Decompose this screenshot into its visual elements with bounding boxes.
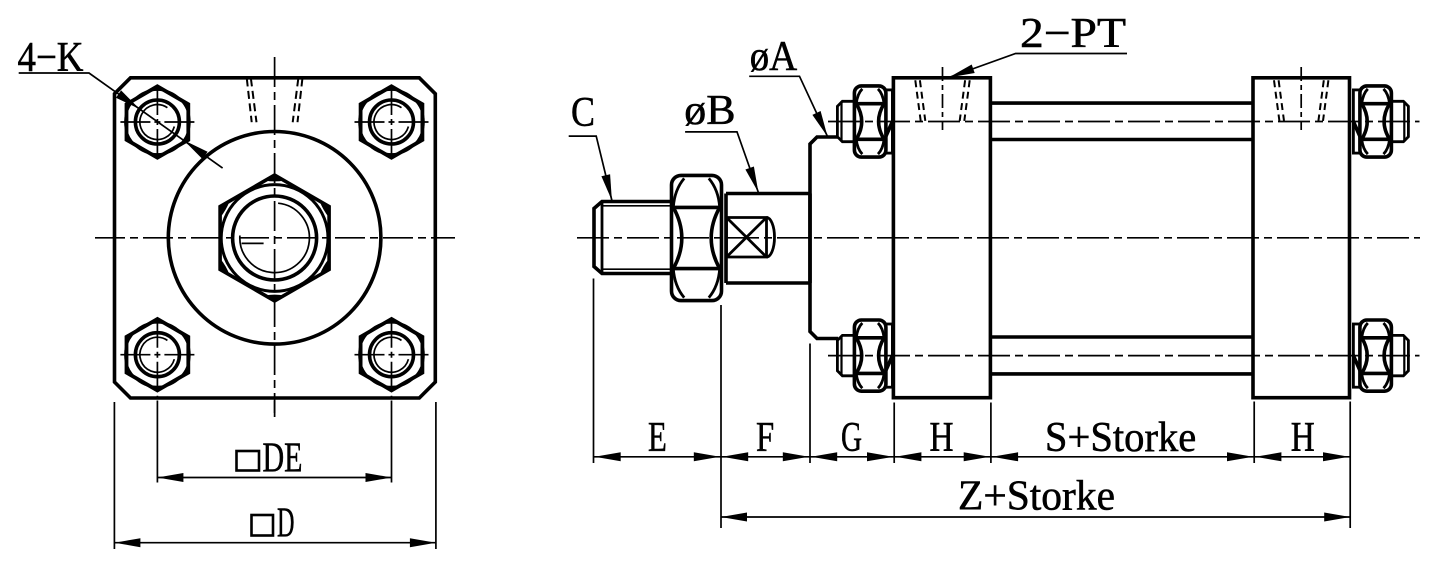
tie-rod bolt top-right: hex	[361, 86, 423, 157]
bolt bottom-left chamfer circle	[125, 323, 189, 387]
dimension line DE	[157, 477, 391, 479]
nut chamfer circle	[221, 185, 328, 292]
dimension line row1	[594, 456, 1350, 458]
piston-rod hex nut (front)	[220, 175, 329, 301]
tie-rod bolt bottom-right: hex	[361, 319, 423, 390]
centerline stub below plate	[274, 401, 276, 414]
rod hex nut (side)	[672, 175, 722, 300]
arrow C	[601, 174, 612, 200]
port hidden lines (front) left pair	[247, 79, 257, 123]
gland section oA	[810, 137, 838, 339]
extension lines DE	[157, 401, 391, 483]
svg-text:2−PT: 2−PT	[1020, 10, 1126, 57]
arrow 2-PT	[949, 65, 975, 78]
extension lines row1	[593, 279, 595, 464]
arrow D right	[410, 538, 436, 547]
tie rod centerline top	[828, 121, 1420, 123]
tie-rod nut rear top	[1353, 86, 1408, 157]
wrench flat tangent arc	[767, 218, 775, 258]
arrow DE left	[157, 473, 183, 482]
bolt bottom-right chamfer wedges	[361, 319, 423, 390]
svg-text:H: H	[930, 414, 954, 461]
svg-text:Z+Storke: Z+Storke	[958, 473, 1115, 520]
bolt bottom-right thread arc	[374, 337, 408, 372]
tie-rod nut rear bottom	[1353, 320, 1408, 391]
arrow oB	[745, 167, 758, 193]
leader C	[569, 136, 612, 200]
port 2-PT on rear cap	[1274, 80, 1328, 121]
bolt top-left centermark	[120, 121, 194, 123]
bolt top-right chamfer wedges	[361, 86, 423, 157]
bolt bottom-left thread arc	[140, 337, 174, 372]
arrow 4-K upper	[116, 90, 140, 109]
tie-rod nut head top	[837, 86, 892, 157]
svg-text:DE: DE	[263, 435, 303, 482]
svg-text:øB: øB	[684, 87, 735, 134]
bolt bottom-right centermark	[355, 354, 429, 356]
svg-text:H: H	[1291, 414, 1315, 461]
main axis centerline	[577, 237, 1420, 239]
arrow 4-K lower	[184, 140, 208, 159]
rod thread circle (3/4)	[240, 203, 310, 272]
bolt bottom-right chamfer circle	[359, 323, 423, 387]
port 2-PT on head cap	[915, 80, 969, 121]
bolt top-left thread arc	[140, 105, 174, 140]
wrench flat square	[727, 218, 767, 258]
arrow DE right	[366, 473, 392, 482]
tie rod centerline bottom	[828, 355, 1420, 357]
bolt top-right shank circle	[370, 100, 414, 144]
rear cap	[1253, 78, 1350, 398]
nut chamfer wedges	[220, 175, 329, 301]
bolt top-left chamfer wedges	[126, 86, 188, 157]
port centerline on head cap	[942, 67, 944, 130]
tie rod bottom	[990, 337, 1253, 374]
plate vertical centerline	[274, 57, 276, 417]
bolt top-right centermark	[355, 121, 429, 123]
arrow D left	[114, 538, 140, 547]
wrench flat diagonals	[727, 218, 767, 258]
leader oA	[749, 76, 827, 136]
bolt top-right chamfer circle	[359, 90, 423, 154]
tie-rod bolt bottom-left: hex	[127, 319, 189, 390]
thread chamfer line	[601, 202, 604, 274]
piston rod oB outline	[726, 194, 810, 284]
leader 2-PT	[949, 54, 1127, 78]
port hidden lines (front) right pair	[293, 79, 303, 123]
bolt top-left shank circle	[135, 100, 179, 144]
tie rod top	[990, 103, 1253, 139]
tie-rod nut head bottom	[837, 320, 892, 391]
svg-text:E: E	[648, 414, 667, 461]
bolt bottom-left shank circle	[135, 333, 179, 377]
plate horizontal centerline	[95, 237, 455, 239]
rod thread outline	[594, 202, 672, 274]
arrows row1	[595, 452, 621, 461]
svg-text:D: D	[277, 500, 295, 547]
dimension line D	[114, 542, 436, 544]
thread minor lines	[602, 206, 672, 269]
rod hole circle	[233, 196, 317, 280]
bolt bottom-right shank circle	[370, 333, 414, 377]
svg-text:S+Storke: S+Storke	[1045, 414, 1196, 461]
square symbol DE	[237, 451, 260, 471]
square symbol D	[252, 515, 274, 536]
extension lines D	[114, 402, 436, 549]
rod thread runout line	[242, 242, 264, 244]
leader 4-K	[19, 73, 223, 168]
cylinder bore circle	[168, 132, 381, 345]
bolt bottom-left chamfer wedges	[126, 319, 188, 390]
bolt bottom-left centermark	[120, 354, 194, 356]
bolt top-right thread arc	[374, 105, 408, 140]
port centerline on rear cap	[1300, 67, 1302, 130]
svg-text:C: C	[571, 89, 595, 136]
svg-text:G: G	[841, 414, 862, 461]
head cap	[893, 78, 990, 398]
tie-rod bolt top-left: hex	[127, 86, 189, 157]
leader oB	[685, 132, 758, 193]
arrow oA	[812, 111, 827, 137]
flange plate outline	[115, 78, 436, 398]
dimension line row2 Z+Storke	[721, 516, 1350, 518]
arrows row2	[721, 513, 747, 522]
svg-text:øA: øA	[750, 33, 798, 80]
bolt top-left chamfer circle	[125, 90, 189, 154]
svg-text:F: F	[756, 414, 774, 461]
